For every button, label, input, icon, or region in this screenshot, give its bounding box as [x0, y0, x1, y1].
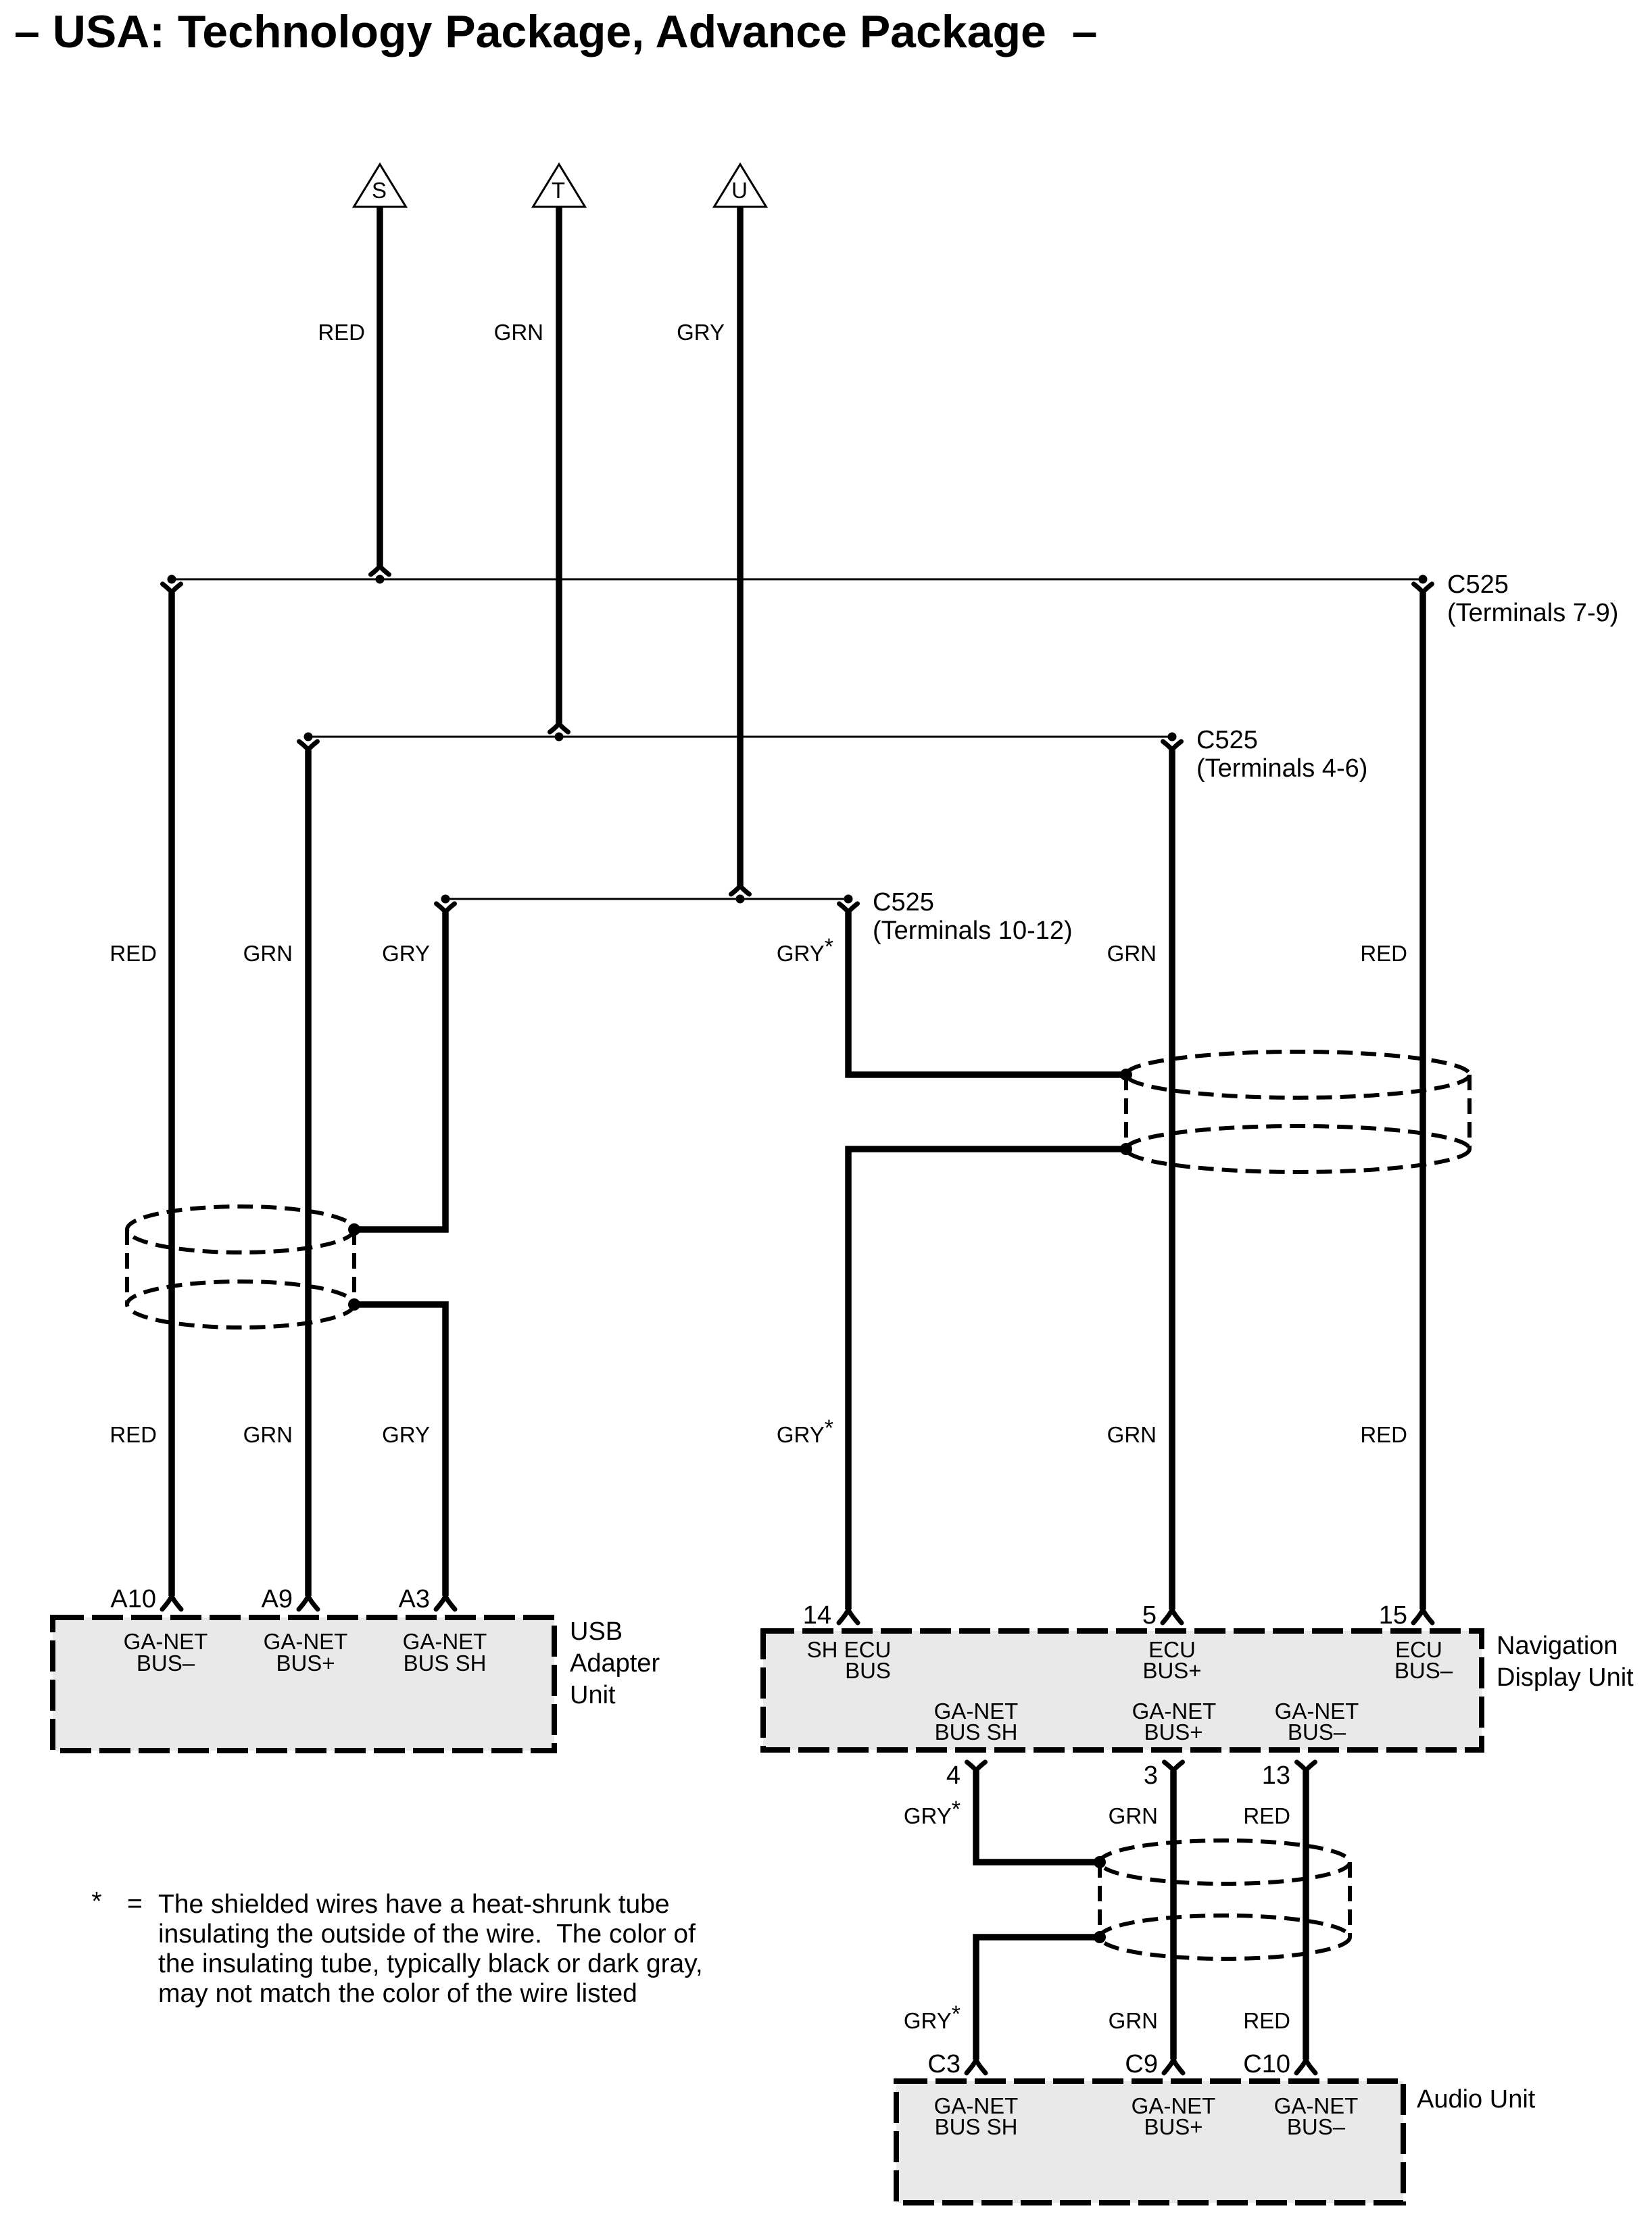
svg-text:U: U — [731, 178, 748, 203]
svg-text:RED: RED — [318, 320, 365, 345]
shield around GRN and RED wires (audio unit side) — [1100, 1840, 1350, 1959]
svg-text:RED: RED — [110, 941, 157, 966]
navigation display unit box — [763, 1631, 1482, 1750]
junction dot at left end of C525 (7-9) — [168, 575, 176, 584]
wire RED from navigation pin 13 down to audio unit pin C10 — [1296, 1762, 1315, 2073]
svg-text:4: 4 — [946, 1761, 961, 1790]
wire GRY from triangle U down to C525 (10-12) junction — [731, 207, 750, 894]
junction dot at triangle T wire on C525 (4-6) — [555, 733, 564, 741]
svg-text:GA-NETBUS SH: GA-NETBUS SH — [403, 1629, 487, 1676]
svg-text:GA-NETBUS SH: GA-NETBUS SH — [934, 2093, 1019, 2139]
svg-text:RED: RED — [1243, 2008, 1290, 2033]
wire GRN from C525 (4-6) down to navigation display unit pin 5 — [1163, 741, 1182, 1623]
svg-text:14: 14 — [803, 1601, 831, 1630]
svg-text:C3: C3 — [927, 2050, 961, 2078]
junction dot at right end of C525 (7-9) — [1419, 575, 1428, 584]
connector line C525 (Terminals 4-6) — [308, 736, 1172, 738]
wire RED from C525 (7-9) down to USB adapter unit pin A10 — [162, 584, 181, 1609]
wire GRY from C525 (10-12) down to left shield, upper stub — [354, 904, 455, 1229]
svg-text:RED: RED — [1360, 1422, 1407, 1447]
svg-text:=: = — [127, 1889, 143, 1918]
svg-text:GRY: GRY — [382, 941, 430, 966]
svg-text:ECUBUS+: ECUBUS+ — [1142, 1637, 1201, 1683]
svg-text:GRN: GRN — [494, 320, 543, 345]
svg-text:– USA: Technology Package, Adv: – USA: Technology Package, Advance Packa… — [14, 6, 1097, 57]
svg-text:RED: RED — [1360, 941, 1407, 966]
junction dot at left end of C525 (4-6) — [304, 733, 313, 741]
svg-text:GRN: GRN — [1109, 1803, 1158, 1828]
svg-text:GRY: GRY — [382, 1422, 430, 1447]
shield around RED and GRN wires (USB adapter side) — [127, 1206, 354, 1327]
wire GRY* from C525 (10-12) down to right shield, upper stub — [840, 904, 1127, 1075]
svg-text:GA-NETBUS SH: GA-NETBUS SH — [934, 1699, 1019, 1745]
svg-text:5: 5 — [1142, 1601, 1157, 1630]
wire RED from triangle S down to C525 (7-9) junction — [371, 207, 389, 575]
svg-text:GRN: GRN — [1107, 1422, 1157, 1447]
svg-text:A3: A3 — [399, 1585, 430, 1613]
wire GRN from navigation pin 3 down to audio unit pin C9 — [1164, 1762, 1183, 2073]
wire GRN from C525 (4-6) down to USB adapter unit pin A9 — [299, 741, 318, 1609]
junction dot at left end of C525 (10-12) — [441, 895, 450, 904]
svg-text:GRN: GRN — [1109, 2008, 1158, 2033]
junction dot shield upper (bottom shield) — [1094, 1856, 1106, 1868]
wire GRY* from right shield lower stub down to navigation display unit pin 14 — [839, 1149, 1126, 1623]
connector triangle T — [533, 164, 585, 207]
svg-text:GRN: GRN — [243, 941, 293, 966]
shield around GRN and RED wires (navigation display side) — [1126, 1052, 1469, 1172]
svg-text:The shielded wires have a heat: The shielded wires have a heat-shrunk tu… — [158, 1890, 703, 2008]
junction dot shield lower (bottom shield) — [1094, 1931, 1106, 1943]
wire GRY* from bottom shield lower stub down to audio unit pin C3 — [967, 1937, 1100, 2073]
svg-text:GRN: GRN — [1107, 941, 1157, 966]
svg-text:RED: RED — [110, 1422, 157, 1447]
svg-text:C9: C9 — [1125, 2050, 1158, 2078]
svg-text:C10: C10 — [1243, 2050, 1290, 2078]
junction dot shield lower (right shield) — [1120, 1143, 1132, 1155]
junction dot at right end of C525 (10-12) — [844, 895, 853, 904]
svg-text:A10: A10 — [110, 1585, 156, 1613]
svg-text:GRN: GRN — [243, 1422, 293, 1447]
svg-text:15: 15 — [1379, 1601, 1407, 1630]
svg-text:Audio Unit: Audio Unit — [1417, 2085, 1536, 2114]
svg-text:*: * — [91, 1887, 101, 1916]
svg-text:13: 13 — [1262, 1761, 1290, 1790]
wire GRY from left shield lower stub down to USB adapter unit pin A3 — [354, 1304, 455, 1609]
connector line C525 (Terminals 10-12) — [445, 898, 848, 900]
wire GRN from triangle T down to C525 (4-6) junction — [550, 207, 568, 732]
svg-text:A9: A9 — [262, 1585, 293, 1613]
wire RED from C525 (7-9) down to navigation display unit pin 15 — [1413, 584, 1432, 1623]
svg-text:GRY: GRY — [677, 320, 725, 345]
connector triangle S — [354, 164, 406, 207]
wire GRY* from navigation pin 4 down to bottom shield upper stub — [967, 1762, 1100, 1862]
connector line C525 (Terminals 7-9) — [172, 579, 1423, 581]
junction dot shield lower (left shield) — [348, 1298, 360, 1311]
junction dot shield upper (right shield) — [1120, 1069, 1132, 1081]
junction dot at triangle S wire on C525 (7-9) — [376, 575, 385, 584]
svg-text:T: T — [552, 178, 565, 203]
USB adapter unit box — [53, 1617, 554, 1751]
svg-text:3: 3 — [1144, 1761, 1158, 1790]
svg-text:RED: RED — [1243, 1803, 1290, 1828]
audio unit box — [896, 2081, 1403, 2203]
junction dot at triangle U wire on C525 (10-12) — [736, 895, 745, 904]
junction dot at right end of C525 (4-6) — [1168, 733, 1177, 741]
junction dot shield upper (left shield) — [348, 1223, 360, 1236]
svg-text:S: S — [372, 178, 387, 203]
connector triangle U — [714, 164, 767, 207]
